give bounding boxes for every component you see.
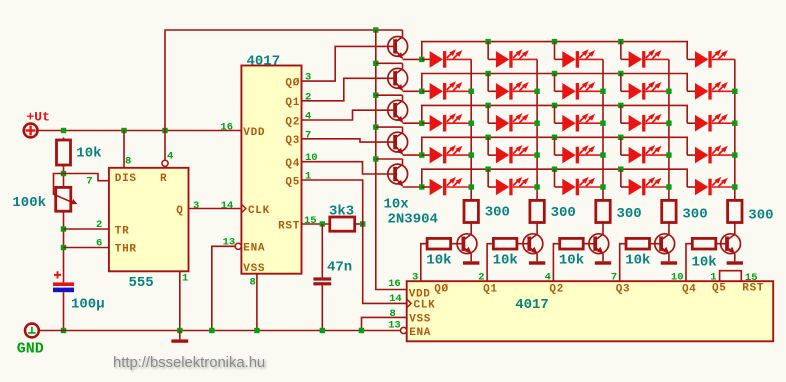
- junction anode bus row 5 col 4: [618, 167, 623, 172]
- wire 300 to collector col 5: [734, 223, 736, 235]
- svg-text:16: 16: [388, 278, 401, 290]
- junction cathode col 4 row 2: [666, 89, 671, 94]
- svg-text:10k: 10k: [426, 253, 451, 269]
- svg-text:8: 8: [250, 277, 256, 289]
- transistor Q5 2N3904 row 5 driver: [388, 159, 408, 186]
- junction anode bus row 5 col 3: [552, 167, 557, 172]
- resistor R4 300 column 2: [530, 200, 544, 222]
- resistor R6 300 column 4: [662, 200, 676, 222]
- LED D4 row 1 col 4: [621, 49, 669, 67]
- svg-text:47n: 47n: [327, 260, 352, 276]
- LED D25 row 5 col 5: [687, 177, 735, 195]
- ground symbol column 1: [463, 261, 479, 264]
- junction main wire / 555 pin 8: [121, 128, 126, 133]
- wire U2 Q0 to row 1 transistor base: [302, 46, 394, 81]
- junction anode bus row 1 col 2: [485, 39, 490, 44]
- wire 10k to base col 1: [451, 243, 462, 245]
- junction anode bus row 3 col 3: [552, 103, 557, 108]
- junction cathode col 1 row 5: [469, 184, 474, 189]
- inversion bubble U3 ENA: [401, 327, 407, 333]
- LED D13 row 3 col 3: [555, 113, 604, 131]
- svg-text:Q3: Q3: [285, 135, 300, 147]
- junction cathode col 5 row 3: [732, 121, 737, 126]
- junction anode bus row 2 col 3: [552, 71, 557, 76]
- svg-text:300: 300: [617, 206, 642, 222]
- junction cathode col 4 row 3: [666, 121, 671, 126]
- svg-text:RST: RST: [278, 220, 300, 232]
- svg-text:100µ: 100µ: [71, 297, 105, 313]
- junction anode bus row 5 col 2: [485, 167, 490, 172]
- wire 555 pin 8 from main wire: [123, 131, 125, 168]
- wire emitter row 1 to LED anode junction: [403, 58, 422, 60]
- junction U3 VSS / ground bus: [359, 328, 364, 333]
- transistor Q9 2N3904 column 4 driver: [655, 234, 675, 261]
- wire 300 to collector col 1: [470, 223, 472, 235]
- junction THR branch: [61, 245, 66, 250]
- LED D12 row 3 col 2: [488, 113, 537, 131]
- wire 10k to base col 3: [583, 243, 593, 245]
- LED D3 row 1 col 3: [555, 49, 604, 67]
- svg-text:ENA: ENA: [409, 327, 431, 339]
- wire anode drop row 4 col 2: [487, 137, 489, 155]
- wire anode bus row 1: [422, 42, 687, 60]
- svg-text:10: 10: [671, 272, 684, 284]
- junction cathode col 1 row 2: [469, 89, 474, 94]
- resistor R7 300 column 5: [728, 200, 742, 222]
- counter IC U2 4017 body: [241, 66, 301, 274]
- junction anode bus row 1 col 4: [618, 39, 623, 44]
- LED D10 row 2 col 5: [687, 81, 735, 99]
- wire anode drop row 3 col 3: [554, 105, 556, 123]
- wire 300 to collector col 4: [668, 223, 670, 235]
- wire U2 Q5 down to U3 CLK: [302, 180, 407, 303]
- wire anode drop row 3 col 4: [620, 105, 622, 123]
- LED D7 row 2 col 2: [488, 81, 537, 99]
- wire anode drop row 4 col 3: [554, 137, 556, 155]
- transistor Q2 2N3904 row 2 driver: [388, 63, 408, 90]
- wire collector branch row 3: [376, 94, 403, 96]
- junction anode bus row 4 col 3: [552, 135, 557, 140]
- junction +V rail / row 2 collector branch: [373, 61, 378, 66]
- wire anode drop row 2 col 4: [620, 74, 622, 92]
- wire anode bus row 2: [422, 74, 687, 92]
- wire emitter row 5 to LED anode junction: [403, 186, 422, 188]
- svg-text:THR: THR: [115, 244, 137, 256]
- wire anode bus row 4: [422, 137, 687, 155]
- LED D23 row 5 col 3: [555, 177, 604, 195]
- svg-text:Q2: Q2: [549, 283, 564, 295]
- junction cathode col 3 row 5: [600, 184, 605, 189]
- inversion bubble pin 4: [162, 160, 168, 166]
- svg-text:3: 3: [193, 200, 199, 212]
- junction +V rail / row 3 collector branch: [373, 93, 378, 98]
- capacitor C2 47n: [313, 224, 331, 331]
- svg-text:3: 3: [412, 272, 418, 284]
- resistor R9 10k base column 2: [493, 238, 517, 249]
- svg-text:14: 14: [389, 293, 402, 305]
- svg-text:Q4: Q4: [285, 158, 300, 170]
- svg-text:CLK: CLK: [248, 205, 270, 217]
- svg-text:4: 4: [545, 272, 551, 284]
- svg-text:16: 16: [220, 122, 233, 134]
- svg-text:300: 300: [748, 207, 773, 223]
- wire anode drop row 1 col 4: [620, 42, 622, 60]
- LED D21 row 5 col 1: [422, 177, 471, 195]
- svg-text:VDD: VDD: [243, 127, 265, 139]
- resistor R3 300 column 1: [464, 200, 478, 222]
- junction cathode col 2 row 5: [534, 184, 539, 189]
- junction cathode col 3 row 3: [600, 121, 605, 126]
- svg-text:4017: 4017: [247, 54, 281, 70]
- svg-text:13: 13: [223, 236, 236, 248]
- junction cathode col 5 row 4: [732, 152, 737, 157]
- resistor R1 10k (timing upper): [57, 137, 71, 165]
- svg-text:300: 300: [682, 207, 707, 223]
- wire DIS node to 555 pin 7: [64, 174, 109, 181]
- junction cathode col 1 row 4: [469, 152, 474, 157]
- junction C1 / ground bus: [61, 328, 66, 333]
- LED D15 row 3 col 5: [687, 113, 735, 131]
- svg-text:100k: 100k: [12, 195, 46, 211]
- junction main wire / top rail riser: [162, 128, 167, 133]
- junction ENA / ground bus: [209, 328, 214, 333]
- clock wedge U3 CLK: [407, 299, 412, 308]
- wire anode drop row 3 col 2: [487, 105, 489, 123]
- wire U2 Q2 to row 3 transistor base: [302, 110, 394, 120]
- junction anode bus row 4 col 2: [485, 135, 490, 140]
- wire cathode column 3 vertical: [602, 59, 604, 200]
- wire THR node to 555 pin 6: [64, 247, 109, 249]
- wire U2 Q1 to row 2 transistor base: [302, 78, 394, 101]
- junction U2 VSS / ground bus: [254, 328, 259, 333]
- svg-text:VSS: VSS: [243, 263, 265, 275]
- ground symbol column 4: [661, 261, 677, 264]
- wire anode bus row 3: [422, 105, 687, 123]
- ground symbol column 2: [529, 261, 545, 264]
- svg-text:Q: Q: [176, 205, 183, 217]
- LED D18 row 4 col 3: [555, 145, 604, 163]
- svg-text:2: 2: [96, 219, 102, 231]
- junction cathode col 2 row 2: [534, 89, 539, 94]
- LED D17 row 4 col 2: [488, 145, 537, 163]
- transistor Q8 2N3904 column 3 driver: [589, 234, 609, 261]
- resistor R2 3k3: [330, 217, 355, 231]
- wire emitter row 4 to LED anode junction: [403, 154, 422, 156]
- wire U2 VSS pin 8 to ground bus: [256, 274, 258, 331]
- wire vertical +V rail down to U3 VDD: [376, 30, 407, 290]
- svg-text:10k: 10k: [76, 145, 101, 161]
- LED D24 row 5 col 4: [621, 177, 669, 195]
- LED D5 row 1 col 5: [687, 49, 735, 67]
- capacitor C1 100u electrolytic: [53, 271, 74, 330]
- LED D8 row 2 col 3: [555, 81, 604, 99]
- junction cathode col 2 row 4: [534, 152, 539, 157]
- inversion bubble U2 ENA: [235, 243, 241, 249]
- wire 10k to U3 pin col 5: [686, 244, 692, 282]
- wire cathode column 5 vertical: [734, 59, 736, 200]
- junction anode bus row 4 col 4: [618, 135, 623, 140]
- svg-text:ENA: ENA: [243, 243, 265, 255]
- wire 555 Q output to U2 CLK: [189, 208, 242, 210]
- wire 10k to U3 pin col 2: [487, 244, 493, 282]
- wire U2 ENA to ground bus: [212, 246, 235, 330]
- wire anode drop row 5 col 3: [554, 169, 556, 187]
- junction anode bus row 1 col 3: [552, 39, 557, 44]
- wire U3 Q5 to RST loop: [720, 271, 742, 282]
- junction top rail / vertical +V rail: [373, 27, 378, 32]
- resistor R10 10k base column 3: [560, 238, 584, 249]
- svg-text:14: 14: [221, 200, 234, 212]
- wire 10k to U3 pin col 3: [553, 244, 559, 282]
- counter IC U3 4017 body: [407, 281, 774, 341]
- svg-text:Q2: Q2: [285, 116, 300, 128]
- transistor Q3 2N3904 row 3 driver: [388, 95, 408, 122]
- wire 300 to collector col 3: [602, 223, 604, 235]
- resistor R5 300 column 3: [596, 200, 610, 222]
- LED D20 row 4 col 5: [687, 145, 735, 163]
- junction anode bus row 3 col 2: [485, 103, 490, 108]
- transistor Q4 2N3904 row 4 driver: [388, 127, 408, 154]
- ground symbol below 555: [171, 331, 188, 343]
- wire anode drop row 2 col 2: [487, 74, 489, 92]
- junction R1/P1/DIS node: [61, 171, 66, 176]
- svg-text:R: R: [160, 173, 167, 185]
- resistor R12 10k base column 5: [692, 238, 716, 249]
- junction 555 pin1 / ground bus: [177, 328, 182, 333]
- junction main wire / R1 top: [61, 128, 66, 133]
- junction anode bus row 2 col 2: [485, 71, 490, 76]
- resistor R11 10k base column 4: [626, 238, 650, 249]
- wire emitter row 2 to LED anode junction: [403, 90, 422, 92]
- ground symbol column 5: [727, 261, 743, 264]
- svg-text:Q4: Q4: [682, 283, 697, 295]
- junction cathode col 4 row 4: [666, 152, 671, 157]
- wire cathode column 2 vertical: [536, 59, 538, 200]
- wire TR node to 555 pin 2: [64, 228, 109, 230]
- junction anode bus row 3 / emitter: [419, 121, 424, 126]
- wire P1 bottom to TR/THR/C1: [63, 211, 65, 282]
- junction cathode col 2 row 3: [534, 121, 539, 126]
- svg-text:VSS: VSS: [409, 314, 431, 326]
- wire 300 to collector col 2: [536, 223, 538, 235]
- svg-text:Q1: Q1: [483, 283, 498, 295]
- transistor Q1 2N3904 row 1 driver: [388, 30, 408, 59]
- LED D16 row 4 col 1: [422, 145, 471, 163]
- junction 47n / ground bus: [320, 328, 325, 333]
- wire 10k to U3 pin col 4: [620, 244, 626, 282]
- svg-text:10x: 10x: [384, 197, 410, 213]
- junction anode bus row 2 col 4: [618, 71, 623, 76]
- terminal +Ut supply pad: [24, 124, 38, 138]
- junction cathode col 5 row 5: [732, 184, 737, 189]
- svg-text:8: 8: [125, 156, 131, 168]
- svg-text:10k: 10k: [625, 253, 650, 269]
- wire 3k3 right to Q5 line: [355, 223, 363, 225]
- LED D14 row 3 col 4: [621, 113, 669, 131]
- wire anode drop row 2 col 3: [554, 74, 556, 92]
- wire 10k to base col 4: [650, 243, 660, 245]
- junction anode bus row 2 / emitter: [419, 89, 424, 94]
- LED D6 row 2 col 1: [422, 81, 471, 99]
- svg-text:10k: 10k: [559, 253, 584, 269]
- LED D9 row 2 col 4: [621, 81, 669, 99]
- junction TR branch: [61, 226, 66, 231]
- wire ground bus: [39, 330, 401, 332]
- wire emitter row 3 to LED anode junction: [403, 122, 422, 124]
- wire U2 Q4 to row 5 transistor base: [302, 162, 394, 174]
- transistor Q10 2N3904 column 5 driver: [721, 234, 741, 261]
- wire collector branch row 5: [376, 158, 403, 160]
- svg-text:7: 7: [611, 272, 617, 284]
- wire anode drop row 1 col 3: [554, 42, 556, 60]
- wire U3 VSS to ground bus: [362, 317, 407, 330]
- svg-text:CLK: CLK: [414, 300, 436, 312]
- svg-text:15: 15: [304, 215, 317, 227]
- svg-text:Q3: Q3: [616, 283, 631, 295]
- wire 10k to U3 pin col 1: [421, 244, 427, 282]
- svg-text:QØ: QØ: [285, 77, 300, 89]
- wire anode drop row 4 col 4: [620, 137, 622, 155]
- junction anode bus row 5 / emitter: [419, 184, 424, 189]
- wire 10k to base col 5: [716, 243, 726, 245]
- junction +V rail / row 4 collector branch: [373, 124, 378, 129]
- wire collector branch row 4: [376, 126, 403, 128]
- wire +Ut main horizontal to VDD pin 16 of U2: [38, 130, 242, 132]
- junction +V rail / row 5 collector branch: [373, 156, 378, 161]
- LED D11 row 3 col 1: [422, 113, 471, 131]
- wire U2 RST to 3k3: [302, 223, 330, 225]
- svg-text:4017: 4017: [515, 297, 549, 313]
- op... timer IC U1 555 body: [109, 168, 189, 271]
- wire R1 bottom to P1 top: [63, 165, 65, 187]
- svg-text:QØ: QØ: [434, 283, 449, 295]
- transistor Q6 2N3904 column 1 driver: [457, 234, 477, 261]
- svg-text:13: 13: [388, 319, 401, 331]
- svg-text:10k: 10k: [692, 255, 717, 271]
- svg-text:Q1: Q1: [285, 97, 300, 109]
- svg-text:Q5: Q5: [285, 176, 300, 188]
- wire 555 pin 4 reset from main wire: [164, 131, 166, 161]
- junction RST / 47n: [320, 221, 325, 226]
- potentiometer P1 100k: [54, 174, 78, 212]
- svg-text:RST: RST: [742, 283, 764, 295]
- clock wedge U2 CLK: [241, 204, 246, 213]
- svg-text:6: 6: [96, 238, 102, 250]
- wire collector branch row 2: [376, 62, 403, 64]
- resistor R8 10k base column 1: [427, 238, 451, 249]
- terminal GND pad: [25, 324, 39, 338]
- wire cathode column 1 vertical: [470, 59, 472, 200]
- LED D1 row 1 col 1: [422, 49, 471, 67]
- LED D22 row 5 col 2: [488, 177, 537, 195]
- svg-text:1: 1: [182, 273, 188, 285]
- wire anode drop row 1 col 2: [487, 42, 489, 60]
- wire anode bus row 5: [422, 169, 687, 187]
- wire anode drop row 5 col 4: [620, 169, 622, 187]
- svg-text:3k3: 3k3: [329, 204, 354, 220]
- wire cathode column 4 vertical: [668, 59, 670, 200]
- junction cathode col 4 row 5: [666, 184, 671, 189]
- wire U2 Q3 to row 4 transistor base: [302, 139, 394, 142]
- junction anode bus row 1 / emitter: [419, 57, 424, 62]
- svg-text:7: 7: [86, 175, 92, 187]
- wire 10k to base col 2: [517, 243, 528, 245]
- junction cathode col 3 row 4: [600, 152, 605, 157]
- svg-text:300: 300: [551, 205, 576, 221]
- junction anode bus row 3 col 4: [618, 103, 623, 108]
- junction anode bus row 4 / emitter: [419, 152, 424, 157]
- wire 555 pin 1 to ground bus: [179, 271, 181, 330]
- svg-text:TR: TR: [115, 225, 130, 237]
- svg-text:+Ut: +Ut: [27, 110, 50, 125]
- svg-text:2N3904: 2N3904: [388, 212, 438, 228]
- svg-text:2: 2: [478, 272, 484, 284]
- svg-text:10k: 10k: [493, 253, 518, 269]
- svg-text:555: 555: [129, 275, 154, 291]
- ground symbol column 3: [595, 261, 611, 264]
- wire anode drop row 5 col 2: [487, 169, 489, 187]
- svg-text:http://bsselektronika.hu: http://bsselektronika.hu: [113, 355, 265, 371]
- svg-text:4: 4: [167, 151, 173, 163]
- LED D19 row 4 col 4: [621, 145, 669, 163]
- svg-text:300: 300: [485, 205, 510, 221]
- junction cathode col 5 row 2: [732, 89, 737, 94]
- junction cathode col 3 row 2: [600, 89, 605, 94]
- svg-text:GND: GND: [17, 341, 44, 358]
- junction 3k3 / Q5 wire: [360, 221, 365, 226]
- wire +V riser and top rail: [165, 30, 403, 131]
- svg-text:Q5: Q5: [712, 283, 727, 295]
- junction cathode col 1 row 3: [469, 121, 474, 126]
- LED D2 row 1 col 2: [488, 49, 537, 67]
- transistor Q7 2N3904 column 2 driver: [523, 234, 543, 261]
- svg-text:DIS: DIS: [115, 173, 137, 185]
